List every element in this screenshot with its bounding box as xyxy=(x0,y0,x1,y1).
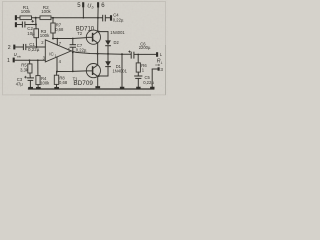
wire pin3 xyxy=(14,59,45,61)
svg-text:0,22µ: 0,22µ xyxy=(28,47,40,52)
svg-text:2: 2 xyxy=(8,45,11,51)
diode D2 xyxy=(107,32,109,41)
svg-text:ein: ein xyxy=(17,54,21,58)
node R5 tap xyxy=(29,59,31,61)
wire pin7 rail to T2 base xyxy=(53,37,86,40)
svg-text:0,22µ: 0,22µ xyxy=(76,48,87,53)
ground rail xyxy=(28,88,154,90)
node rail Ub junction xyxy=(97,17,99,19)
svg-text:b: b xyxy=(92,5,94,9)
wire top rail xyxy=(51,17,102,19)
output wire xyxy=(71,51,131,54)
svg-text:3: 3 xyxy=(160,67,163,72)
svg-text:BD709: BD709 xyxy=(73,80,93,87)
resistor R7 xyxy=(52,18,54,23)
wire to D2 xyxy=(99,31,108,33)
node pin2 junction xyxy=(36,46,38,48)
svg-text:100k: 100k xyxy=(40,80,50,85)
pin 7 stub xyxy=(56,39,58,46)
capacitor C2 xyxy=(17,24,22,26)
border frame right segment xyxy=(165,45,167,95)
node pin7 wire junction xyxy=(52,38,54,40)
node D1 tap xyxy=(98,75,100,77)
wire xyxy=(29,73,31,78)
node C7 output crossing xyxy=(72,52,74,54)
capacitor C5 xyxy=(137,72,139,76)
resistor R3 xyxy=(34,29,39,38)
wire T2 collector to rail xyxy=(97,18,99,32)
wire output shunt xyxy=(121,54,123,87)
svg-text:1N4001: 1N4001 xyxy=(110,30,125,35)
svg-text:D2: D2 xyxy=(114,40,120,45)
pin 4 stub xyxy=(56,57,58,72)
terminal 6 xyxy=(97,2,99,7)
node C7 top xyxy=(72,38,74,40)
wire xyxy=(35,25,37,29)
node pin4 junction xyxy=(56,71,58,73)
wire output to terminal xyxy=(134,53,156,55)
resistor R1 xyxy=(20,16,32,20)
svg-text:6: 6 xyxy=(68,47,70,51)
wire T2 emitter down xyxy=(97,43,99,54)
svg-text:2200µ: 2200µ xyxy=(139,45,151,50)
svg-text:T2: T2 xyxy=(77,31,83,36)
capacitor C4 xyxy=(102,15,104,22)
svg-text:1: 1 xyxy=(55,54,57,58)
node C2 junction xyxy=(35,24,37,26)
svg-text:3,3k: 3,3k xyxy=(20,67,29,72)
svg-text:1N4001: 1N4001 xyxy=(113,68,128,73)
svg-text:100k: 100k xyxy=(41,9,51,14)
svg-text:100k: 100k xyxy=(21,9,31,14)
node R4 tap xyxy=(37,59,39,61)
terminal L out xyxy=(156,52,158,57)
wire T1 emitter to ground xyxy=(97,76,99,86)
capacitor C7 xyxy=(72,39,74,45)
op-amp IC1 xyxy=(45,40,71,62)
terminal (R1 left) xyxy=(15,15,17,20)
svg-text:47µ: 47µ xyxy=(16,82,24,87)
node D2 tap xyxy=(98,31,100,33)
node output T junction xyxy=(97,53,99,55)
node output Zobel junction xyxy=(121,53,123,55)
node output D junction xyxy=(107,53,109,55)
wire xyxy=(32,17,41,19)
svg-text:0,22µ: 0,22µ xyxy=(113,17,124,22)
diode D1 xyxy=(107,54,109,61)
svg-text:0,68: 0,68 xyxy=(55,27,64,32)
paper background xyxy=(0,0,168,100)
capacitor C3 xyxy=(27,77,34,79)
resistor R8 xyxy=(56,72,58,76)
svg-text:L: L xyxy=(161,61,163,65)
resistor R4 xyxy=(37,60,39,75)
resistor R6 xyxy=(137,54,139,63)
capacitor C1 xyxy=(15,46,23,48)
border frame light xyxy=(3,2,166,95)
transistor T1 xyxy=(86,64,100,78)
resistor R2 xyxy=(40,16,51,20)
resistor R5 xyxy=(29,60,31,64)
node rail R7 junction xyxy=(52,17,54,19)
wire xyxy=(17,17,20,19)
node divider junction xyxy=(35,17,37,19)
wire pin4 to T1 base xyxy=(57,70,86,73)
terminal 3 xyxy=(158,67,160,70)
terminal (C2 left) xyxy=(15,22,17,27)
wire xyxy=(35,38,37,47)
svg-text:1: 1 xyxy=(7,58,10,64)
node C7 bottom xyxy=(72,71,74,73)
wire divider down xyxy=(35,18,37,25)
border frame bottom dark segment xyxy=(30,94,151,96)
svg-text:100k: 100k xyxy=(40,33,50,38)
arrow xyxy=(155,64,160,66)
svg-text:0,68: 0,68 xyxy=(59,80,68,85)
wire pin2 xyxy=(37,46,46,48)
